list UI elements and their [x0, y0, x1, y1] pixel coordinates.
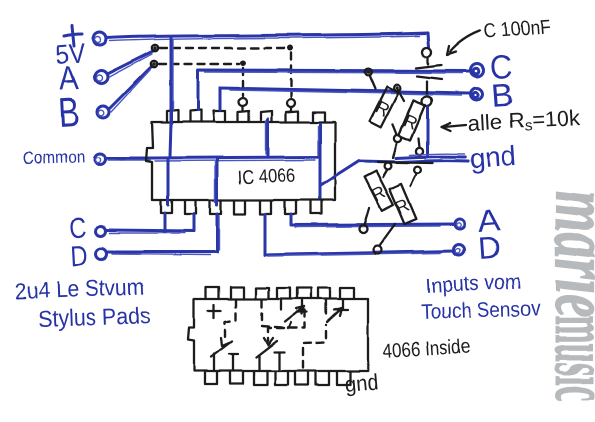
- dashed control SW1: [221, 300, 236, 346]
- wire C right to pin2 top: [198, 70, 470, 110]
- IC U2 4066-inside body: [188, 299, 368, 371]
- dashed control SW3: [262, 300, 292, 328]
- svg-text:gnd: gnd: [343, 369, 379, 397]
- resistor R4: [373, 167, 421, 254]
- node dot B-dash: [151, 61, 157, 67]
- capacitor C1 100nF: [416, 33, 442, 155]
- wire C left: [106, 230, 194, 233]
- wire pin1 bottom outside to C wire: [164, 213, 167, 232]
- label +5V: [54, 26, 86, 70]
- terminal common: [95, 154, 106, 165]
- svg-text:Stylus Pads: Stylus Pads: [37, 302, 151, 332]
- wire pin3 bottom outside to D wire: [217, 214, 219, 252]
- dashed wire to pin4 top: [159, 60, 247, 111]
- svg-text:Touch Sensov: Touch Sensov: [420, 297, 541, 324]
- terminal A: [95, 71, 108, 84]
- terminal C right: [471, 64, 484, 77]
- dashed control SW2: [264, 310, 305, 345]
- terminal C left: [96, 226, 106, 236]
- terminal +5V: [94, 33, 107, 46]
- wire pin2 bottom outside to C wire: [193, 214, 196, 231]
- IC U1 body: [146, 122, 335, 200]
- wire A diagonal: [107, 50, 155, 77]
- wire common: [106, 158, 152, 160]
- IC U1 top pins: [167, 110, 325, 122]
- terminal A right: [455, 219, 465, 229]
- svg-text:marie: marie: [538, 191, 595, 317]
- terminal B: [97, 106, 109, 118]
- wire D left: [107, 252, 217, 255]
- wire pin6 bottom to A right: [291, 214, 455, 227]
- IC U2 top pins: [206, 287, 354, 299]
- resistor R2: [394, 85, 426, 155]
- wire +5V horizontal: [107, 33, 428, 41]
- resistor R1: [365, 69, 402, 158]
- wire pin7 top to common: [318, 124, 320, 157]
- wire pin1 bottom inside: [167, 158, 170, 205]
- watermark mariemusic: [538, 191, 595, 401]
- wire pin5 bottom to D right: [265, 214, 455, 256]
- svg-text:IC 4066: IC 4066: [237, 165, 296, 189]
- wire pin1 vertical from +5V: [170, 37, 173, 157]
- dashed wire to pin6 top: [160, 45, 295, 111]
- label C 100nF: [447, 16, 551, 55]
- IC U1 bottom pins: [161, 200, 322, 214]
- wire pin7 bottom + gnd diagonal: [320, 158, 400, 198]
- wire common inside IC: [152, 157, 320, 161]
- terminal B right: [471, 88, 483, 100]
- svg-text:2u4 Le Stvum: 2u4 Le Stvum: [14, 273, 145, 304]
- switch SW2: [256, 341, 284, 371]
- IC U2 bottom pins: [205, 371, 350, 385]
- dashed control SW4: [303, 325, 326, 368]
- wire pin5 top to common: [266, 119, 268, 156]
- plus symbol U2: [208, 305, 221, 318]
- wire pin3 bottom inside: [215, 158, 217, 205]
- wire B right to pin3 top: [220, 88, 470, 110]
- wire gnd bus: [378, 154, 468, 163]
- label alle Rs=10k: [441, 105, 582, 138]
- terminal D left: [96, 249, 107, 260]
- svg-text:music: music: [538, 315, 595, 401]
- svg-text:gnd: gnd: [468, 141, 517, 174]
- svg-text:D: D: [477, 230, 501, 266]
- switch SW3: [281, 299, 307, 322]
- svg-text:C 100nF: C 100nF: [483, 16, 551, 43]
- node dot A-dash: [152, 45, 158, 51]
- switch SW4: [326, 299, 348, 322]
- svg-text:B: B: [57, 89, 80, 136]
- wire B diagonal: [109, 66, 152, 112]
- resistor R3: [359, 163, 393, 233]
- terminal D right: [454, 245, 465, 256]
- svg-text:Common: Common: [22, 147, 85, 168]
- svg-text:D: D: [70, 240, 89, 273]
- switch SW1: [211, 341, 238, 371]
